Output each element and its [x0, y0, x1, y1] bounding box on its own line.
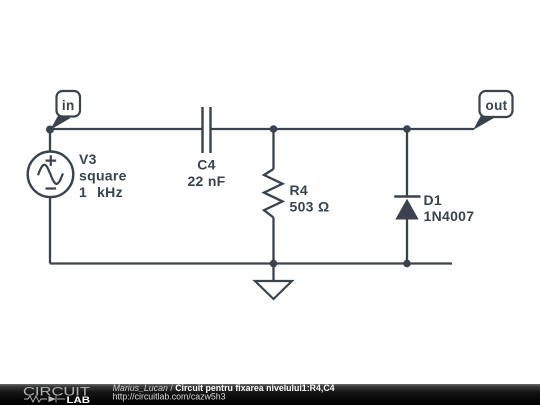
svg-text:LAB: LAB [67, 395, 91, 405]
svg-text:1kHz: 1kHz [79, 184, 123, 200]
svg-text:R4: R4 [290, 182, 309, 198]
svg-text:C4: C4 [197, 157, 216, 173]
svg-text:D1: D1 [424, 192, 443, 208]
svg-text:22 nF: 22 nF [187, 173, 225, 189]
svg-text:1N4007: 1N4007 [424, 208, 475, 224]
svg-text:square: square [79, 168, 127, 184]
svg-text:in: in [62, 98, 75, 113]
svg-text:out: out [486, 98, 508, 113]
svg-text:503 Ω: 503 Ω [290, 198, 330, 214]
svg-text:http://circuitlab.com/cazw5h3: http://circuitlab.com/cazw5h3 [113, 391, 226, 401]
svg-text:V3: V3 [79, 151, 97, 167]
